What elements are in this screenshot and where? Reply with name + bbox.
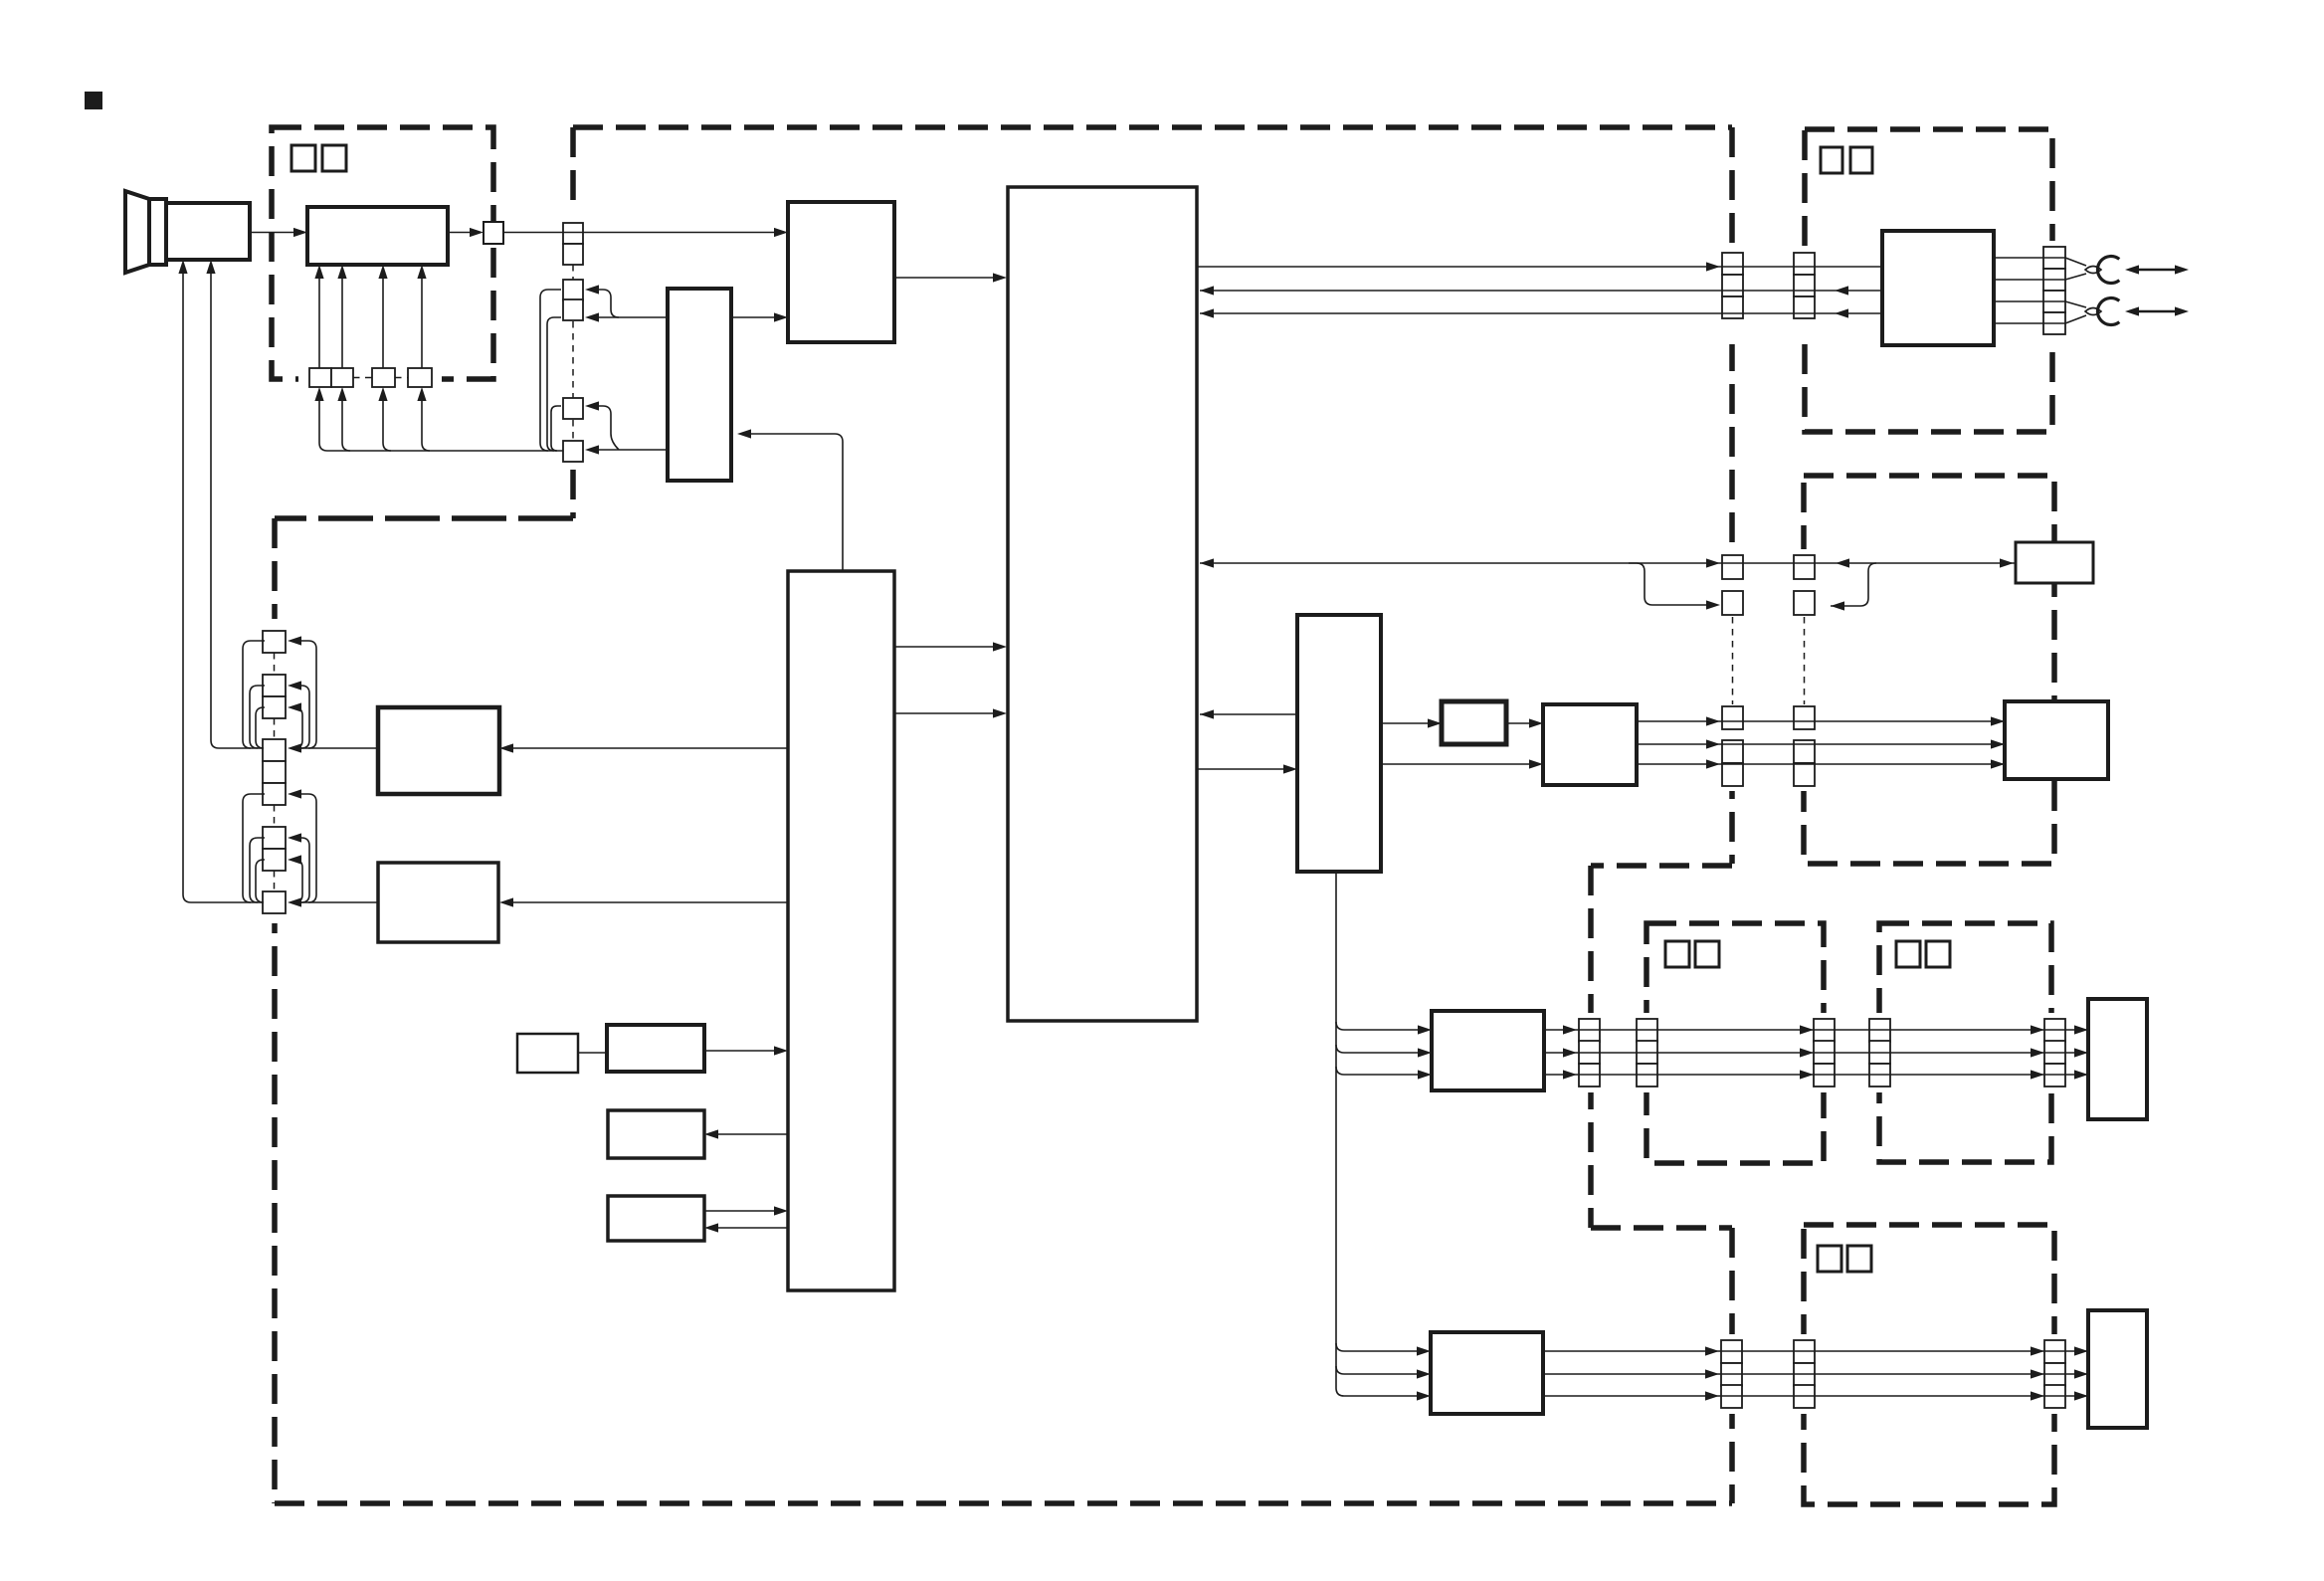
wire: CN101 right arc y=864 xyxy=(294,860,302,902)
connector CN302 (phone jacks) xyxy=(2043,247,2065,334)
connector CN203 (audio L, board side) xyxy=(1579,1019,1600,1087)
block: zoom driver xyxy=(378,863,498,942)
wire: control bus under lens block xyxy=(319,395,563,451)
wire: audio IC to DA converter xyxy=(1381,722,1428,724)
wire: CN101 left arc y=644 xyxy=(243,641,265,748)
label glyph box 1 (phone jack board) xyxy=(1821,147,1842,173)
connector CN103 centerline (dashed) xyxy=(353,377,408,379)
wire: process block to camera DSP xyxy=(894,277,993,279)
wire: CN101 left arc y=798 xyxy=(243,794,265,902)
wire: focus driver to CN101 pin4 xyxy=(299,747,378,749)
wire: riser into lens row connector at x=424 xyxy=(422,395,430,451)
wire: lens row connector to lens driver at x=385 xyxy=(382,273,384,368)
wire: phone amp to jack connector y=303 xyxy=(1994,300,2065,302)
block: A/D process block xyxy=(788,202,894,342)
wire: jack connector to phone jack 2 xyxy=(2065,301,2086,307)
wire: preamp to timing gen xyxy=(704,1050,774,1052)
wire: motor driver out y=1403 xyxy=(1543,1395,2088,1397)
wire: CN101 pin4 to camera (focus) xyxy=(211,267,263,748)
wire: lens row connector to lens driver at x=424 xyxy=(421,273,423,368)
module boundary: speaker unit R (dashed) xyxy=(1879,923,2051,1162)
wire: camera DSP to audio IC xyxy=(1200,713,1297,715)
wire: branch to speaker amp L y=1035 xyxy=(1336,1022,1418,1030)
block: motor xyxy=(2088,1310,2147,1428)
wire: CN102 left arc pin4 to bus xyxy=(547,317,561,451)
wire: speaker amp out y=1035 xyxy=(1544,1029,2088,1031)
wire: motor driver out y=1381 xyxy=(1543,1373,2088,1375)
connector CN202 upper (LCD control, board side) xyxy=(1722,555,1743,615)
connector CN102 (mid flex, squares) xyxy=(563,223,583,462)
connector CN204 (motor drive, board side) xyxy=(1721,1340,1742,1408)
wire: video amp to LCD panel y=768 xyxy=(1637,763,2005,765)
wire: CN102 left arc pin5 to bus xyxy=(551,406,561,451)
block: CCD / CDS-AGC (tall) xyxy=(668,289,731,481)
block: mic preamp xyxy=(607,1025,704,1072)
wire: CN101 pin9 to camera (zoom) xyxy=(183,267,263,902)
wire: timing gen to block L3 xyxy=(718,1227,788,1229)
wire: branch to motor driver y=1358 xyxy=(1336,1343,1417,1351)
connector CN401 centerline (dashed) xyxy=(1804,617,1806,704)
module boundary: motor unit (dashed) xyxy=(1804,1225,2054,1504)
wire: camera body to lens driver xyxy=(250,232,293,234)
wire: branch to speaker amp L y=1080 xyxy=(1336,1067,1418,1075)
wire: timing gen to camera DSP upper xyxy=(894,646,993,648)
wire: audio IC input from camera DSP xyxy=(1197,768,1283,770)
camera lens hood (trapezoid) xyxy=(125,191,149,273)
wire: branch to motor driver y=1381 xyxy=(1336,1366,1417,1374)
connector CN102 centerline (dashed) xyxy=(572,265,574,441)
wire: branch to CN202 pin2 xyxy=(1629,563,1706,605)
wire: speaker amp out y=1058 xyxy=(1544,1052,2088,1054)
wire: CN102 left arc pin3 to bus xyxy=(540,290,561,451)
block: audio IC (tall) xyxy=(1297,615,1381,872)
wire: video amp to LCD panel y=748 xyxy=(1637,743,2005,745)
wire: phone amp to jack connector y=325 xyxy=(1994,322,2065,324)
label glyph box 2 (phone jack board) xyxy=(1850,147,1872,173)
connector CN602 (audio R, out) xyxy=(2044,1019,2065,1087)
camera body block xyxy=(166,203,250,260)
wire: CN101 right arc y=644 xyxy=(301,641,316,748)
wire: video amp to LCD panel y=725 xyxy=(1637,720,2005,722)
phone jack symbol 2 xyxy=(2085,298,2189,325)
block: DA converter xyxy=(1442,701,1506,744)
block: speaker L xyxy=(2088,999,2147,1119)
label glyph box 2 (speaker unit L) xyxy=(1695,941,1719,967)
wire: phone amp to jack connector y=259 xyxy=(1994,257,2065,259)
wire: riser into lens row connector at x=385 xyxy=(383,395,391,451)
block: focus driver xyxy=(378,707,499,794)
wire: block L3 to timing gen xyxy=(704,1210,774,1212)
wire: CCD block to process block xyxy=(731,316,774,318)
label glyph box 1 (lens block) xyxy=(291,145,315,171)
wire: timing gen top to CCD block input xyxy=(751,434,843,571)
wire: CN101 left arc y=689 xyxy=(250,686,265,748)
wire: audio IC to video amp lower xyxy=(1381,763,1529,765)
wire: timing gen to block L2 xyxy=(718,1133,788,1135)
wire: riser into lens row connector at x=344 xyxy=(342,395,350,451)
connector CN202 lower (LCD data, board side) xyxy=(1722,706,1743,786)
wire: CN101 right arc y=798 xyxy=(301,794,316,902)
connector CN101 (left flex, squares) xyxy=(263,631,286,913)
wire: lens row connector to lens driver at x=344 xyxy=(341,273,343,368)
wire: jack connector to phone jack 1 xyxy=(2065,258,2086,266)
block: camera DSP (large IC) xyxy=(1008,187,1197,1021)
block: phone jack amp xyxy=(1882,231,1994,345)
block: timing generator / sync IC (tall) xyxy=(788,571,894,1290)
connector CN103 (lens row, squares) xyxy=(309,368,432,387)
wire: mic block to preamp stub xyxy=(578,1052,607,1054)
label glyph box 2 (lens block) xyxy=(322,145,346,171)
connector CN702 (motor unit, out) xyxy=(2044,1340,2065,1408)
label glyph box 2 (motor unit) xyxy=(1847,1246,1871,1272)
wire: branch up to CN102 pin5 xyxy=(599,406,619,450)
wire: branch to speaker amp L y=1058 xyxy=(1336,1045,1418,1053)
module boundary: main board (dashed) xyxy=(275,127,1732,1503)
connector CN401 lower (LCD data, LCD side) xyxy=(1794,706,1815,786)
connector CN202 centerline (dashed) xyxy=(1732,617,1734,704)
wire: branch up to CN102 pin3 xyxy=(599,290,619,317)
wire: audio IC bottom bus (vertical) xyxy=(1336,872,1417,1396)
block: microphone xyxy=(517,1034,578,1073)
module boundary: lens block (dashed) xyxy=(272,127,493,379)
connector CN101 centerline (dashed) xyxy=(274,653,276,891)
label glyph box 1 (motor unit) xyxy=(1818,1246,1841,1272)
title bullet square xyxy=(85,92,102,109)
wire: motor driver out y=1358 xyxy=(1543,1350,2088,1352)
connector CN501 (audio L, unit side) xyxy=(1637,1019,1657,1087)
block: block L2 xyxy=(608,1110,704,1158)
block: LCD control IC xyxy=(2016,542,2093,583)
block: speaker amp L xyxy=(1432,1011,1544,1090)
label glyph box 2 (speaker unit R) xyxy=(1926,941,1950,967)
wire: DA converter to video amp xyxy=(1506,722,1529,724)
wire: CN101 left arc y=842 xyxy=(250,838,265,902)
camera lens barrel xyxy=(149,199,166,265)
wire: CN101 left arc y=711 xyxy=(256,707,265,748)
connector area masks (background) xyxy=(259,213,2069,1414)
wire: lens row connector to lens driver at x=321 xyxy=(318,273,320,368)
wire: lens driver to sensor square xyxy=(448,232,470,234)
label glyph box 1 (speaker unit R) xyxy=(1896,941,1920,967)
wire: speaker amp out y=1080 xyxy=(1544,1074,2088,1076)
wire: timing gen to zoom driver xyxy=(513,901,788,903)
wire: phone amp to camera DSP (line 3) xyxy=(1200,312,1882,314)
connector CN301 (video out, jack side) xyxy=(1794,253,1815,318)
wire: phone amp to camera DSP (line 2) xyxy=(1200,290,1882,292)
phone jack symbol 1 xyxy=(2085,257,2189,284)
label glyph box 1 (speaker unit L) xyxy=(1665,941,1689,967)
wire: branch from LCD side to CN401 pin2 xyxy=(1831,563,1876,606)
connector CN601 (audio R, in) xyxy=(1869,1019,1890,1087)
wire: CN101 left arc y=864 xyxy=(256,860,265,902)
wire: CCD block out upper to CN102 pin4 xyxy=(599,316,668,318)
wire: camera DSP to LCD (bidirectional control) xyxy=(1200,562,2016,564)
wire: timing gen to focus driver xyxy=(513,747,788,749)
module boundary: speaker unit L (dashed) xyxy=(1646,923,1824,1163)
wire: CN101 right arc y=842 xyxy=(301,838,309,902)
wire: camera DSP video out to phone amp (line 1) xyxy=(1197,266,1882,268)
module boundary: phone jack board (dashed) xyxy=(1805,129,2052,432)
block: lens driver IC xyxy=(307,207,448,265)
block: video amp xyxy=(1543,704,1637,785)
wire: timing gen to camera DSP lower xyxy=(894,712,993,714)
connector CN502 (audio L, out) xyxy=(1814,1019,1835,1087)
block: motor driver xyxy=(1431,1332,1543,1414)
wire: zoom driver to CN101 pin9 xyxy=(299,901,378,903)
wire: sensor square through CN102 to process block xyxy=(503,232,774,234)
connector CN201 (video out, board side) xyxy=(1722,253,1743,318)
connector CN701 (motor unit, in) xyxy=(1794,1340,1815,1408)
connector CN401 upper (LCD control, LCD side) xyxy=(1794,555,1815,615)
wire: CN101 right arc y=711 xyxy=(294,707,302,748)
block: LCD panel xyxy=(2005,701,2108,779)
block: sensor inline square xyxy=(484,222,503,244)
wire: phone amp to jack connector y=281 xyxy=(1994,279,2065,281)
wire: CCD block out lower to CN102 pin6 xyxy=(599,449,668,451)
module boundary: LCD unit (dashed) xyxy=(1804,476,2054,864)
wire: CN101 right arc y=689 xyxy=(301,686,309,748)
block: block L3 xyxy=(608,1196,704,1241)
